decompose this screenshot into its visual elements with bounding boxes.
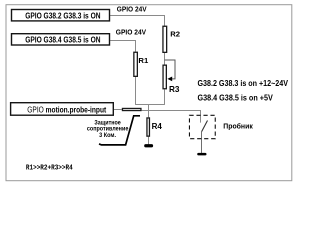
svg-text:Пробник: Пробник: [223, 121, 253, 130]
svg-text:GPIO motion.probe-input: GPIO motion.probe-input: [27, 106, 106, 115]
svg-text:Защитное: Защитное: [94, 121, 121, 127]
wire R4 to ground: [148, 137, 150, 145]
wire R3 bottom: [164, 89, 166, 105]
wiper of R3: [165, 60, 176, 79]
resistor R1: [134, 52, 138, 76]
wire switch to ground: [201, 131, 203, 153]
ground under probe: [197, 153, 206, 156]
leader line to protective resistor: [99, 116, 140, 145]
svg-text:R4: R4: [152, 122, 163, 131]
svg-text:R1>>R2+R3>>R4: R1>>R2+R3>>R4: [26, 165, 73, 173]
svg-text:GPIO G38.4 G38.5 is ON: GPIO G38.4 G38.5 is ON: [25, 36, 101, 45]
wire box3 to protective resistor: [114, 109, 122, 111]
wire rail to R4: [148, 105, 150, 118]
resistor R2: [163, 26, 167, 52]
wire box2 to R1: [110, 41, 135, 52]
svg-text:G38.2 G38.3 is on +12~24V: G38.2 G38.3 is on +12~24V: [198, 79, 289, 88]
wire R1 bottom: [135, 77, 137, 105]
probe dashed box: [189, 115, 215, 138]
svg-text:R3: R3: [169, 85, 180, 94]
svg-text:GPIO 24V: GPIO 24V: [117, 4, 148, 13]
wire resistor to probe: [142, 111, 201, 123]
svg-text:G38.4 G38.5 is on +5V: G38.4 G38.5 is on +5V: [198, 94, 274, 103]
protective resistor (horizontal): [122, 108, 141, 110]
GPIO box 1: [12, 10, 110, 21]
resistor R3 (rheostat): [163, 65, 166, 89]
switch lever: [202, 121, 208, 132]
svg-text:сопротивление: сопротивление: [87, 127, 129, 133]
svg-text:3 Ком.: 3 Ком.: [99, 133, 116, 139]
GPIO box 3: [11, 103, 114, 116]
wire box1 to R2: [110, 16, 164, 27]
svg-text:GPIO 24V: GPIO 24V: [116, 28, 147, 37]
GPIO box 2: [12, 34, 110, 45]
resistor R4: [147, 118, 150, 136]
svg-text:R2: R2: [170, 30, 180, 39]
svg-text:R1: R1: [138, 56, 149, 65]
wire R2 to R3: [164, 53, 166, 65]
ground under R4: [144, 144, 153, 147]
node rail R1-R3: [136, 104, 165, 106]
svg-text:GPIO G38.2 G38.3 is ON: GPIO G38.2 G38.3 is ON: [25, 11, 101, 20]
